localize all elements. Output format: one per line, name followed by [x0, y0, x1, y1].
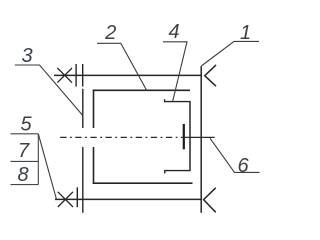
leader 2 line — [97, 43, 147, 90]
svg-text:3: 3 — [22, 45, 33, 67]
corner mark bottom right — [204, 188, 216, 213]
leader 3 line — [15, 65, 83, 116]
corner mark top right — [205, 65, 216, 86]
bracket vertical — [189, 102, 191, 171]
weld X top — [57, 68, 72, 83]
weld tick top — [75, 64, 77, 87]
top plate line — [54, 74, 202, 76]
svg-text:4: 4 — [168, 21, 179, 43]
left wall lower segment — [82, 147, 84, 213]
bracket bottom stub — [165, 171, 191, 174]
bracket top stub — [165, 99, 191, 101]
table right border — [37, 134, 39, 185]
bottom plate line — [55, 198, 202, 200]
right plate line — [200, 66, 202, 213]
svg-text:7: 7 — [18, 140, 30, 162]
weld X bottom — [58, 192, 73, 207]
inner box left edge lower — [93, 147, 95, 184]
shaft end bold line — [183, 124, 185, 149]
weld tick bottom — [76, 187, 78, 207]
table line under 7 — [11, 160, 39, 162]
svg-text:5: 5 — [20, 114, 32, 136]
leader 4 line — [163, 42, 187, 102]
table line under 5 — [11, 133, 39, 135]
left wall upper segment b — [82, 89, 84, 128]
svg-text:2: 2 — [104, 22, 116, 44]
shaft axis solid right segment — [184, 136, 215, 138]
inner box top edge — [93, 89, 190, 91]
leader 1 line — [201, 41, 259, 66]
inner box left edge upper — [93, 90, 95, 128]
svg-text:8: 8 — [17, 164, 28, 186]
table line under 8 — [11, 184, 39, 186]
svg-text:1: 1 — [240, 22, 251, 44]
inner box bottom edge — [93, 182, 193, 184]
leader 5-7-8 line — [38, 134, 56, 200]
left wall upper segment — [82, 64, 84, 87]
svg-text:6: 6 — [237, 155, 249, 177]
leader 6 line — [210, 138, 260, 172]
axis centerline — [60, 136, 182, 138]
